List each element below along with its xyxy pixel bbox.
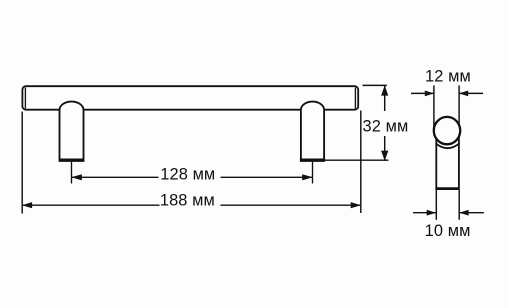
dimension 12 mm arrow left [411,92,434,94]
svg-text:32 мм: 32 мм [362,118,408,136]
side view post sides [435,134,437,188]
side view bar cross-section circle [434,117,460,144]
arrowhead 32 up [381,85,388,95]
side view: extension lines for 12 mm [433,85,435,128]
handle bar (front view) [22,86,358,110]
label 32 mm [363,113,408,134]
dimension 10 mm arrow right [459,212,484,214]
left post (front view) [60,102,84,161]
extension lines for 10 mm [435,190,437,220]
label 128 mm [159,166,221,185]
svg-text:10 мм: 10 мм [425,222,471,240]
arrowhead 188 left [22,202,32,208]
bar right end cap line [354,88,356,109]
bar left end cap line [24,88,26,109]
arrowhead 188 right [351,202,361,208]
dimension 10 mm arrow left [413,212,436,214]
extension line left (from bar left end down to 188 mm dimension) [21,112,23,214]
side view post bottom [435,187,459,190]
label 188 mm [160,194,221,213]
side view joint arc under circle [436,143,460,148]
arrowhead 32 down [381,151,388,161]
left post center line [71,162,73,184]
arrowhead 128 right [302,174,312,180]
svg-text:128 мм: 128 мм [160,165,215,183]
dimension line 128 mm [72,176,159,178]
right post center line [312,162,314,184]
dimension line 188 mm [22,204,160,206]
extension line bottom for 32 mm (at post bottom level) [324,159,389,161]
right post (front view) [301,102,324,161]
extension line top for 32 mm (at bar top level) [363,84,387,86]
dimension line 32 mm (vertical) [384,85,386,111]
left post bottom [59,158,84,161]
right post bottom [300,158,325,161]
dimension 12 mm arrow right [459,92,483,94]
svg-text:188 мм: 188 мм [160,191,215,209]
svg-text:12 мм: 12 мм [425,68,471,86]
extension line right (from bar right end down to 188 mm dimension) [360,111,362,214]
arrowhead 128 left [72,174,82,180]
